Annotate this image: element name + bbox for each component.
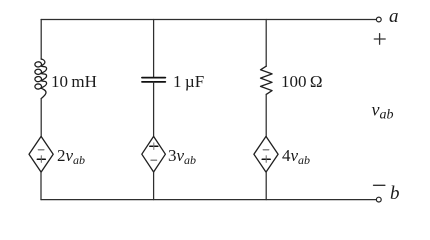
plus sign in source2 (150, 143, 158, 150)
minus sign in source2 (151, 159, 157, 161)
wire branch1 mid (40, 99, 42, 137)
minus sign terminal b (374, 184, 385, 186)
svg-text:2vab: 2vab (57, 146, 85, 167)
wire branch3 bottom (265, 172, 267, 200)
dependent source 4vab diamond (254, 136, 278, 172)
svg-text:1 µF: 1 µF (173, 72, 204, 91)
wire branch2 bottom (153, 172, 155, 200)
wire branch3 top (265, 20, 267, 67)
dependent source 2vab diamond (29, 136, 53, 172)
wire branch1 bottom (40, 172, 42, 200)
svg-text:3vab: 3vab (168, 146, 196, 167)
inductor L1 10mH (35, 59, 47, 99)
wire bottom rail (41, 199, 376, 201)
plus sign in source1 (37, 156, 45, 163)
resistor R1 100ohm zigzag (261, 66, 273, 94)
terminal a circle (376, 17, 381, 22)
wire branch2 top (153, 20, 155, 78)
terminal b circle (376, 197, 381, 202)
svg-text:a: a (389, 6, 399, 27)
plus sign terminal a (374, 34, 385, 45)
svg-text:b: b (390, 183, 400, 204)
svg-text:4vab: 4vab (282, 146, 310, 167)
dependent source 3vab diamond (142, 136, 166, 172)
minus sign in source3 (263, 149, 269, 151)
wire branch2 mid (153, 82, 155, 136)
minus sign in source1 (38, 149, 44, 151)
svg-text:vab: vab (372, 99, 394, 122)
wire branch3 mid (265, 94, 267, 136)
plus sign in source3 (262, 156, 270, 163)
wire branch1 top (40, 20, 42, 60)
svg-text:100 Ω: 100 Ω (281, 72, 323, 91)
svg-text:10 mH: 10 mH (51, 72, 97, 91)
capacitor C1 1uF plates (142, 78, 165, 82)
wire top rail (41, 19, 376, 21)
